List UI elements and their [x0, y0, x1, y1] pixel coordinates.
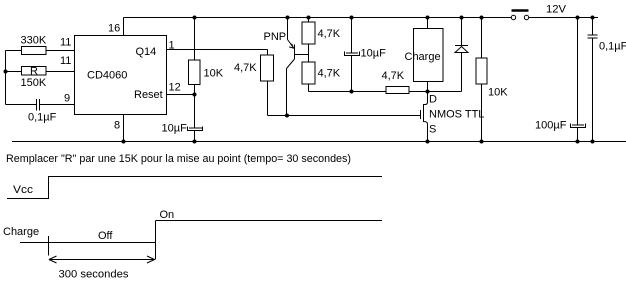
- svg-text:100µF: 100µF: [535, 120, 567, 132]
- svg-text:Charge: Charge: [3, 226, 39, 238]
- svg-text:150K: 150K: [21, 77, 47, 89]
- svg-text:Off: Off: [98, 230, 113, 242]
- svg-text:12: 12: [169, 82, 181, 94]
- svg-text:300 secondes: 300 secondes: [59, 269, 130, 281]
- svg-text:CD4060: CD4060: [87, 70, 127, 82]
- svg-text:On: On: [160, 209, 175, 221]
- svg-text:Charge: Charge: [405, 51, 441, 63]
- svg-text:10K: 10K: [204, 68, 224, 80]
- svg-text:1: 1: [169, 40, 175, 52]
- svg-text:4,7K: 4,7K: [234, 62, 257, 74]
- svg-text:4,7K: 4,7K: [318, 68, 341, 80]
- svg-text:0,1µF: 0,1µF: [28, 112, 57, 124]
- svg-text:10µF: 10µF: [361, 48, 387, 60]
- svg-text:12V: 12V: [546, 4, 567, 16]
- svg-text:11: 11: [60, 37, 71, 49]
- svg-text:11: 11: [60, 55, 71, 67]
- svg-text:Vcc: Vcc: [13, 184, 34, 196]
- svg-text:9: 9: [64, 93, 70, 105]
- svg-text:R: R: [30, 66, 38, 78]
- svg-text:16: 16: [108, 23, 120, 35]
- svg-text:4,7K: 4,7K: [382, 70, 405, 82]
- svg-text:S: S: [429, 124, 436, 136]
- svg-text:Q14: Q14: [136, 46, 157, 58]
- svg-text:Reset: Reset: [134, 89, 163, 101]
- svg-text:4,7K: 4,7K: [318, 28, 341, 40]
- svg-text:Remplacer "R" par une 15K pour: Remplacer "R" par une 15K pour la mise a…: [6, 153, 351, 165]
- svg-text:PNP: PNP: [264, 31, 287, 43]
- svg-text:8: 8: [114, 120, 120, 132]
- svg-text:D: D: [429, 94, 437, 106]
- svg-text:NMOS TTL: NMOS TTL: [429, 109, 484, 121]
- svg-text:0,1µF: 0,1µF: [599, 41, 626, 53]
- svg-text:330K: 330K: [21, 35, 47, 47]
- svg-text:10µF: 10µF: [162, 123, 188, 135]
- svg-text:10K: 10K: [488, 87, 508, 99]
